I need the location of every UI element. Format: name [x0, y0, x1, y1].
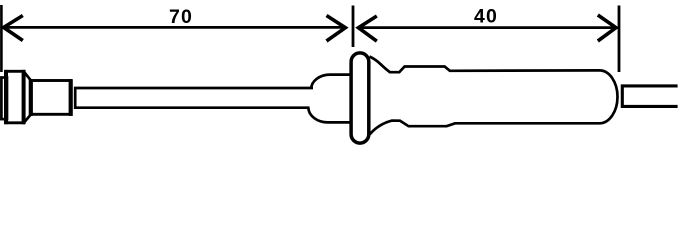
flange disc — [351, 53, 369, 143]
svg-text:40: 40 — [474, 5, 498, 27]
cable dome end — [308, 75, 350, 123]
connector tip cap — [1, 78, 7, 120]
connector ring — [6, 71, 24, 123]
cable right section — [622, 86, 677, 107]
dimension line 70 — [3, 26, 346, 29]
extension line right — [618, 6, 621, 73]
svg-text:70: 70 — [169, 6, 193, 28]
ring left edge — [4, 70, 8, 124]
arrowhead 70 right — [327, 16, 346, 42]
extension line left — [0, 5, 3, 72]
boot body outline — [370, 57, 618, 135]
ring right edge — [22, 70, 26, 124]
barrel chamfer top — [25, 73, 31, 81]
cable left section — [75, 88, 313, 108]
connector barrel — [31, 81, 71, 115]
arrowhead 70 left — [4, 16, 23, 41]
dimension line 40 — [358, 26, 616, 29]
arrowhead 40 left — [358, 16, 376, 41]
arrowhead 40 right — [598, 15, 616, 41]
extension line middle — [352, 6, 355, 48]
barrel right edge — [69, 79, 73, 116]
barrel chamfer bottom — [25, 114, 31, 122]
barrel left edge — [29, 79, 33, 116]
